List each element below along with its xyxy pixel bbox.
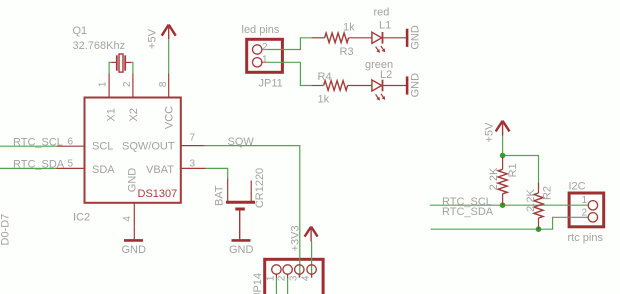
+5V arrow (right) [496,121,510,132]
wire junction to I2C pin2 [539,217,588,229]
svg-text:1k: 1k [318,93,330,105]
svg-text:2.2K: 2.2K [525,189,537,212]
svg-text:VBAT: VBAT [146,164,174,176]
ground under IC pin 4 [133,227,135,239]
pin 8 stub (VCC) [168,74,170,97]
IC IC2 DS1307 body [85,98,181,203]
resistor R2 bottom stub [538,218,540,229]
resistor R1 top stub [502,157,504,169]
JP11 pin 2 stub [262,49,267,51]
junction dot R1 bottom on SCL [500,202,506,208]
pin 3 stub (VBAT) [181,167,206,169]
svg-text:D0-D7: D0-D7 [0,214,12,246]
pin 1 stub (X1) [108,74,110,97]
JP14 pin 1 stub [275,274,277,278]
resistor R4 left stub [312,85,324,87]
connector JP14 outline [265,259,323,294]
+3V3 arrow [305,227,318,237]
resistor R3 left stub [312,37,325,39]
svg-text:GND: GND [410,25,422,50]
svg-text:RTC_SDA: RTC_SDA [13,159,65,171]
svg-text:1: 1 [98,81,109,87]
wire JP11 pin1 to R4 [267,62,312,85]
wire +5V to R1/R2 tee [502,136,504,160]
JP14 pad 4 [307,265,316,274]
battery pin 1 (right vertical) [250,181,252,202]
svg-text:VCC: VCC [163,106,175,129]
pin 7 stub (SQW/OUT) [181,145,205,147]
LED L1 triangle [372,32,382,43]
resistor R4 right stub to LED [348,85,372,87]
svg-text:SQW/OUT: SQW/OUT [122,141,175,153]
svg-text:GND: GND [229,244,254,256]
battery pin + (left vertical) [227,179,229,202]
svg-text:DS1307: DS1307 [138,188,178,200]
svg-text:7: 7 [190,133,196,144]
wire RTC_SCL (right) to I2C pin1 [430,204,588,206]
svg-text:3: 3 [190,158,196,169]
crystal Q1 body [119,54,123,72]
svg-text:SQW: SQW [228,136,255,148]
svg-text:1: 1 [582,195,588,206]
resistor R1 bottom stub [502,194,504,205]
svg-text:I2C: I2C [569,181,586,193]
crystal Q1 right stub [126,61,131,63]
LED L1 light arrows [376,46,385,52]
svg-text:GND: GND [122,244,147,256]
pin 6 stub (SCL) [56,145,84,147]
svg-text:2: 2 [122,81,133,87]
wire JP11 pin2 to R3 [267,38,312,50]
svg-text:6: 6 [68,136,74,147]
svg-text:L1: L1 [379,20,391,32]
JP14 pin 3 stub [298,274,300,278]
svg-text:red: red [374,6,390,18]
wire crystal pin1 to IC X1 [109,62,112,73]
svg-text:X2: X2 [128,108,140,121]
ground under battery [232,239,251,242]
svg-text:R4: R4 [318,71,332,83]
crystal Q1 left stub [112,61,117,63]
battery top plate [226,201,255,204]
resistor R2 top stub [538,183,540,193]
svg-text:CR1220: CR1220 [254,168,266,208]
LED L1 wire to GND [383,37,406,39]
svg-text:+5V: +5V [484,122,496,143]
resistor R1 zigzag [498,169,507,193]
svg-text:R1: R1 [507,163,519,177]
svg-text:8: 8 [158,81,169,87]
LED L2 light arrows [376,94,385,100]
svg-text:1k: 1k [343,22,355,34]
wire JP14 pin2 down [287,278,289,294]
LED L2 triangle [372,80,382,91]
JP11 pad 1 [253,58,262,67]
connector I2C outline [569,193,604,227]
wire pin3/VBAT to battery [206,168,228,178]
svg-text:rtc pins: rtc pins [568,232,604,244]
LED L2 cathode bar [382,80,384,92]
JP14 pad 1 [272,265,281,274]
junction dot R2 bottom on SDA [536,226,542,232]
svg-text:R2: R2 [542,186,554,200]
pin 2 stub (X2) [132,74,134,97]
svg-text:R3: R3 [340,46,354,58]
resistor R3 right stub to LED [349,37,372,39]
connector JP11 outline [247,39,283,72]
ground at L2 (rotated) [406,76,409,94]
svg-text:1: 1 [262,55,268,66]
svg-text:+3V3: +3V3 [290,225,302,251]
wire +5V to IC VCC pin8 [168,39,170,74]
svg-text:2: 2 [582,208,588,219]
+5V arrow (IC pin 8) [162,25,176,36]
JP11 pin 1 stub [262,61,267,63]
JP14 pad 2 [283,265,292,274]
svg-text:SDA: SDA [92,164,115,176]
crystal Q1 right plate [124,55,126,70]
pin 5 stub (SDA) [56,167,84,169]
JP14 pin 4 stub [311,274,313,278]
pin 4 stub (GND) [133,203,135,227]
svg-text:3: 3 [288,275,299,281]
svg-text:1: 1 [266,275,277,281]
resistor R2 zigzag [534,193,543,218]
LED L2 wire to GND [383,85,406,87]
svg-text:4: 4 [122,216,133,222]
svg-text:SCL: SCL [92,141,113,153]
svg-text:GND: GND [410,73,422,98]
JP11 pad 2 [253,45,262,54]
I2C pad 1 [588,201,597,210]
svg-text:4: 4 [301,275,312,281]
svg-text:green: green [365,59,393,71]
junction dot at +5V/R1/R2 tee [500,153,506,159]
ground at L1 (rotated) [406,29,409,47]
wire tee to R2 top [503,156,539,190]
svg-text:+5V: +5V [147,28,159,49]
svg-text:2: 2 [262,42,268,53]
wire RTC_SDA (right) to R2 bottom junction [431,228,539,230]
svg-text:BAT: BAT [213,185,225,206]
svg-text:5: 5 [68,158,74,169]
JP14 pad 3 [295,265,304,274]
wire SQW: IC pin7 to corner then down to JP14 pin3 [204,146,299,277]
LED L1 cathode bar [382,32,384,44]
svg-text:RTC_SDA: RTC_SDA [442,206,494,218]
resistor R3 zigzag [325,33,349,43]
svg-text:led pins: led pins [242,24,280,36]
svg-text:X1: X1 [105,108,117,121]
svg-text:2.2K: 2.2K [488,167,500,190]
svg-text:32.768Khz: 32.768Khz [73,40,126,52]
wire +3V3 to JP14 pin4 [311,242,313,278]
svg-text:RTC_SCL: RTC_SCL [13,136,63,148]
battery bottom plate [235,208,245,211]
wire JP14 pin1 down [275,278,277,294]
svg-text:2: 2 [277,275,288,281]
wire RTC_SCL (left, to IC pin SCL) [0,145,56,147]
resistor R4 zigzag [324,81,348,91]
svg-text:Q1: Q1 [73,25,88,37]
I2C pad 2 [588,213,597,222]
wire crystal pin2 to IC X2 [131,62,133,73]
crystal Q1 left plate [116,55,118,70]
battery stem to GND [239,211,241,240]
svg-text:IC2: IC2 [73,211,90,223]
svg-text:JP11: JP11 [259,78,283,90]
wire RTC_SDA (left, to IC pin SDA) [0,167,56,169]
svg-text:JP14: JP14 [252,273,264,294]
JP14 pin 2 stub [287,274,289,278]
